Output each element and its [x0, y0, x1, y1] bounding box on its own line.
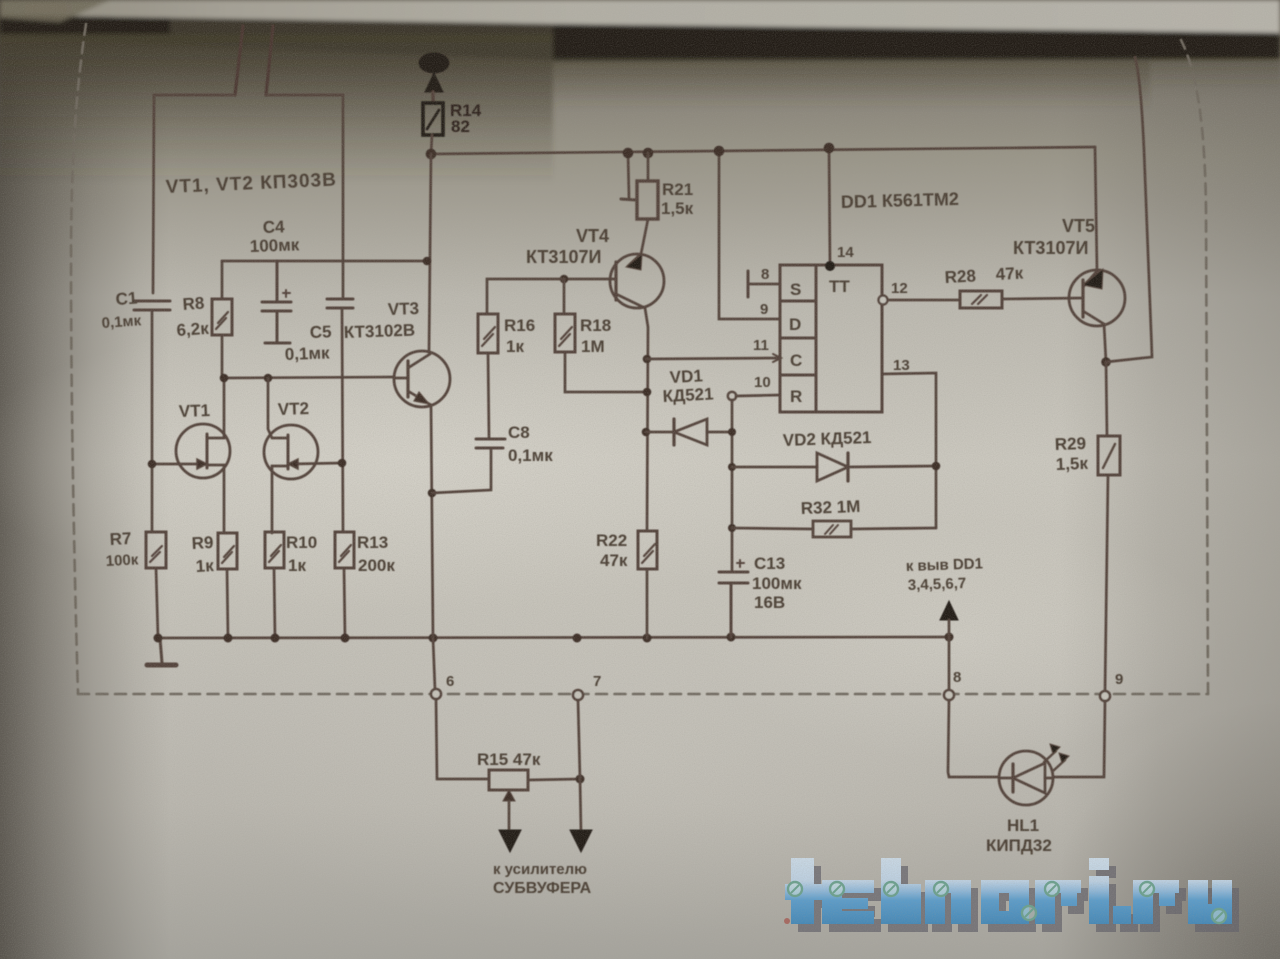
wire: R14 to top rail	[431, 135, 432, 154]
capacitor C4 (electrolytic)	[262, 261, 291, 343]
resistor R10	[265, 532, 284, 568]
junction gate bus right	[264, 374, 273, 383]
junction VT1 gate	[148, 460, 157, 469]
resistor R21	[637, 181, 658, 219]
node 8	[944, 690, 954, 700]
wire: C8 return to emitter line	[432, 448, 491, 493]
junction VT4 base	[560, 275, 569, 284]
wire: R28 to VT5 base	[1002, 298, 1083, 299]
junction collector to C pin	[643, 355, 652, 364]
wire: junction up right side off page	[1106, 57, 1152, 362]
wire: VT3 emitter down to node 6	[431, 405, 435, 690]
junction VD1 right	[728, 428, 736, 436]
capacitor C5	[327, 299, 353, 308]
resistor R29	[1098, 436, 1120, 475]
transistor VT2 (JFET mirrored)	[264, 378, 342, 533]
resistor R14	[423, 103, 443, 135]
top page edge (light strip of page above)	[0, 0, 1280, 184]
LED light arrows	[1044, 744, 1069, 771]
node numbers	[446, 669, 1123, 690]
pin 10 reset stub	[736, 395, 780, 396]
wire: node 6 down to R15	[436, 699, 489, 779]
capacitor C1	[134, 301, 170, 310]
output arrow right	[570, 779, 592, 852]
wire: R9 to rail	[227, 569, 228, 638]
junction C8 return	[428, 489, 437, 498]
wire: VT4 collector chain down	[645, 308, 648, 531]
pin 12 output circle and wire	[879, 296, 961, 305]
pin 13 wire down to R32 node	[882, 373, 936, 528]
resistor R22	[638, 531, 657, 569]
junction VT2 gate to C5 line	[338, 459, 347, 468]
wire: VT5 collector to junction	[1104, 324, 1106, 362]
pin numbers	[753, 244, 910, 391]
wire: R15 right to node7 line	[528, 779, 580, 780]
schematic line work	[71, 24, 1208, 852]
wire: node 7 down	[578, 700, 580, 779]
diode VD1	[646, 419, 732, 445]
capacitor C13 (electrolytic)	[719, 560, 748, 637]
junction dots on ground rail	[154, 633, 954, 643]
wire: R22 to rail	[646, 569, 649, 638]
stub with bar on top rail	[621, 153, 636, 200]
resistor R32	[732, 521, 936, 537]
node 6	[431, 689, 441, 699]
wire: R13 to rail	[344, 568, 345, 638]
wire: VD1 node vertical chain	[731, 400, 734, 570]
wire: R18 top/bottom	[564, 279, 647, 392]
flip-flop DD1 K561TM2	[780, 265, 882, 412]
resistor R18	[555, 314, 575, 352]
LED HL1	[999, 751, 1053, 805]
node 7	[573, 690, 583, 700]
wire: top rail corner down to VT5 emitter	[1095, 147, 1097, 270]
diode VD2	[732, 453, 936, 481]
wire: top cut wires to page edge	[235, 26, 273, 95]
pin 11 clock wire	[646, 354, 781, 362]
wire: upper bias rail R8/C4/C5	[222, 261, 427, 299]
wire: R16 to C8	[488, 353, 489, 437]
junction collector to VD1	[642, 428, 651, 437]
resistor R8	[212, 299, 232, 335]
arrow to DD1 supply pins	[940, 601, 958, 637]
pin 8 stub with bar	[748, 271, 780, 297]
transistor VT4	[564, 254, 664, 308]
junction collector to R18	[643, 388, 652, 397]
connector blob above R14	[420, 54, 448, 72]
wire: rail end down to node 8	[948, 637, 951, 690]
wire: R10 to rail	[274, 568, 275, 638]
pin10 open circle	[728, 392, 736, 400]
junction gate bus left	[220, 374, 229, 383]
resistor R16	[478, 314, 498, 353]
transistor VT1 (JFET)	[152, 378, 230, 533]
paper speck	[784, 918, 790, 924]
pin 14 wire	[829, 148, 830, 265]
transistor VT5	[1069, 269, 1125, 326]
junction bias rail	[423, 257, 432, 266]
wire: R7 to ground rail	[156, 568, 158, 638]
wire: R14 node down to VT3 collector	[429, 154, 431, 352]
wire: LED to node 9	[1053, 701, 1105, 777]
dark band gap between pages	[0, 15, 553, 60]
resistor R13	[335, 532, 354, 568]
wire: base bus to R16 corner	[487, 279, 564, 314]
arrow up to supply	[425, 73, 443, 103]
pin 9 wire from top rail	[719, 151, 780, 319]
R15 wiper arrow	[499, 790, 521, 852]
potentiometer R15	[489, 770, 528, 790]
wire: left column below C1	[151, 310, 154, 532]
schematic text labels	[101, 101, 1123, 897]
wire: node 8 down to LED	[948, 700, 999, 777]
ground symbol	[147, 638, 176, 665]
capacitor C8	[476, 439, 505, 448]
wire: input box outline (left block top)	[153, 95, 343, 297]
junction R32 left	[728, 524, 736, 532]
wire: gate bus VT1 VT2 to VT3 base	[222, 377, 394, 378]
watermark tehnari.ru	[785, 858, 1239, 932]
resistor R28	[960, 291, 1002, 308]
junction R14	[426, 149, 437, 160]
dashed schematic border	[71, 24, 1208, 694]
junction VD2 left	[728, 463, 736, 471]
top-left corner shadow	[0, 0, 110, 22]
node 9	[1100, 691, 1110, 701]
ground rail (bottom common wire)	[158, 637, 949, 638]
top supply rail	[431, 147, 1095, 154]
resistor R9	[218, 533, 237, 569]
wire: junction to R29 to node 9	[1105, 362, 1108, 691]
transistor VT3	[394, 351, 450, 407]
wire: rail to R21, R21 to VT4 emitter	[641, 153, 648, 254]
resistor R7	[146, 532, 166, 568]
wire: R8 bottom to gate wire	[221, 335, 224, 378]
wire: C5 line down to R13	[342, 308, 343, 532]
